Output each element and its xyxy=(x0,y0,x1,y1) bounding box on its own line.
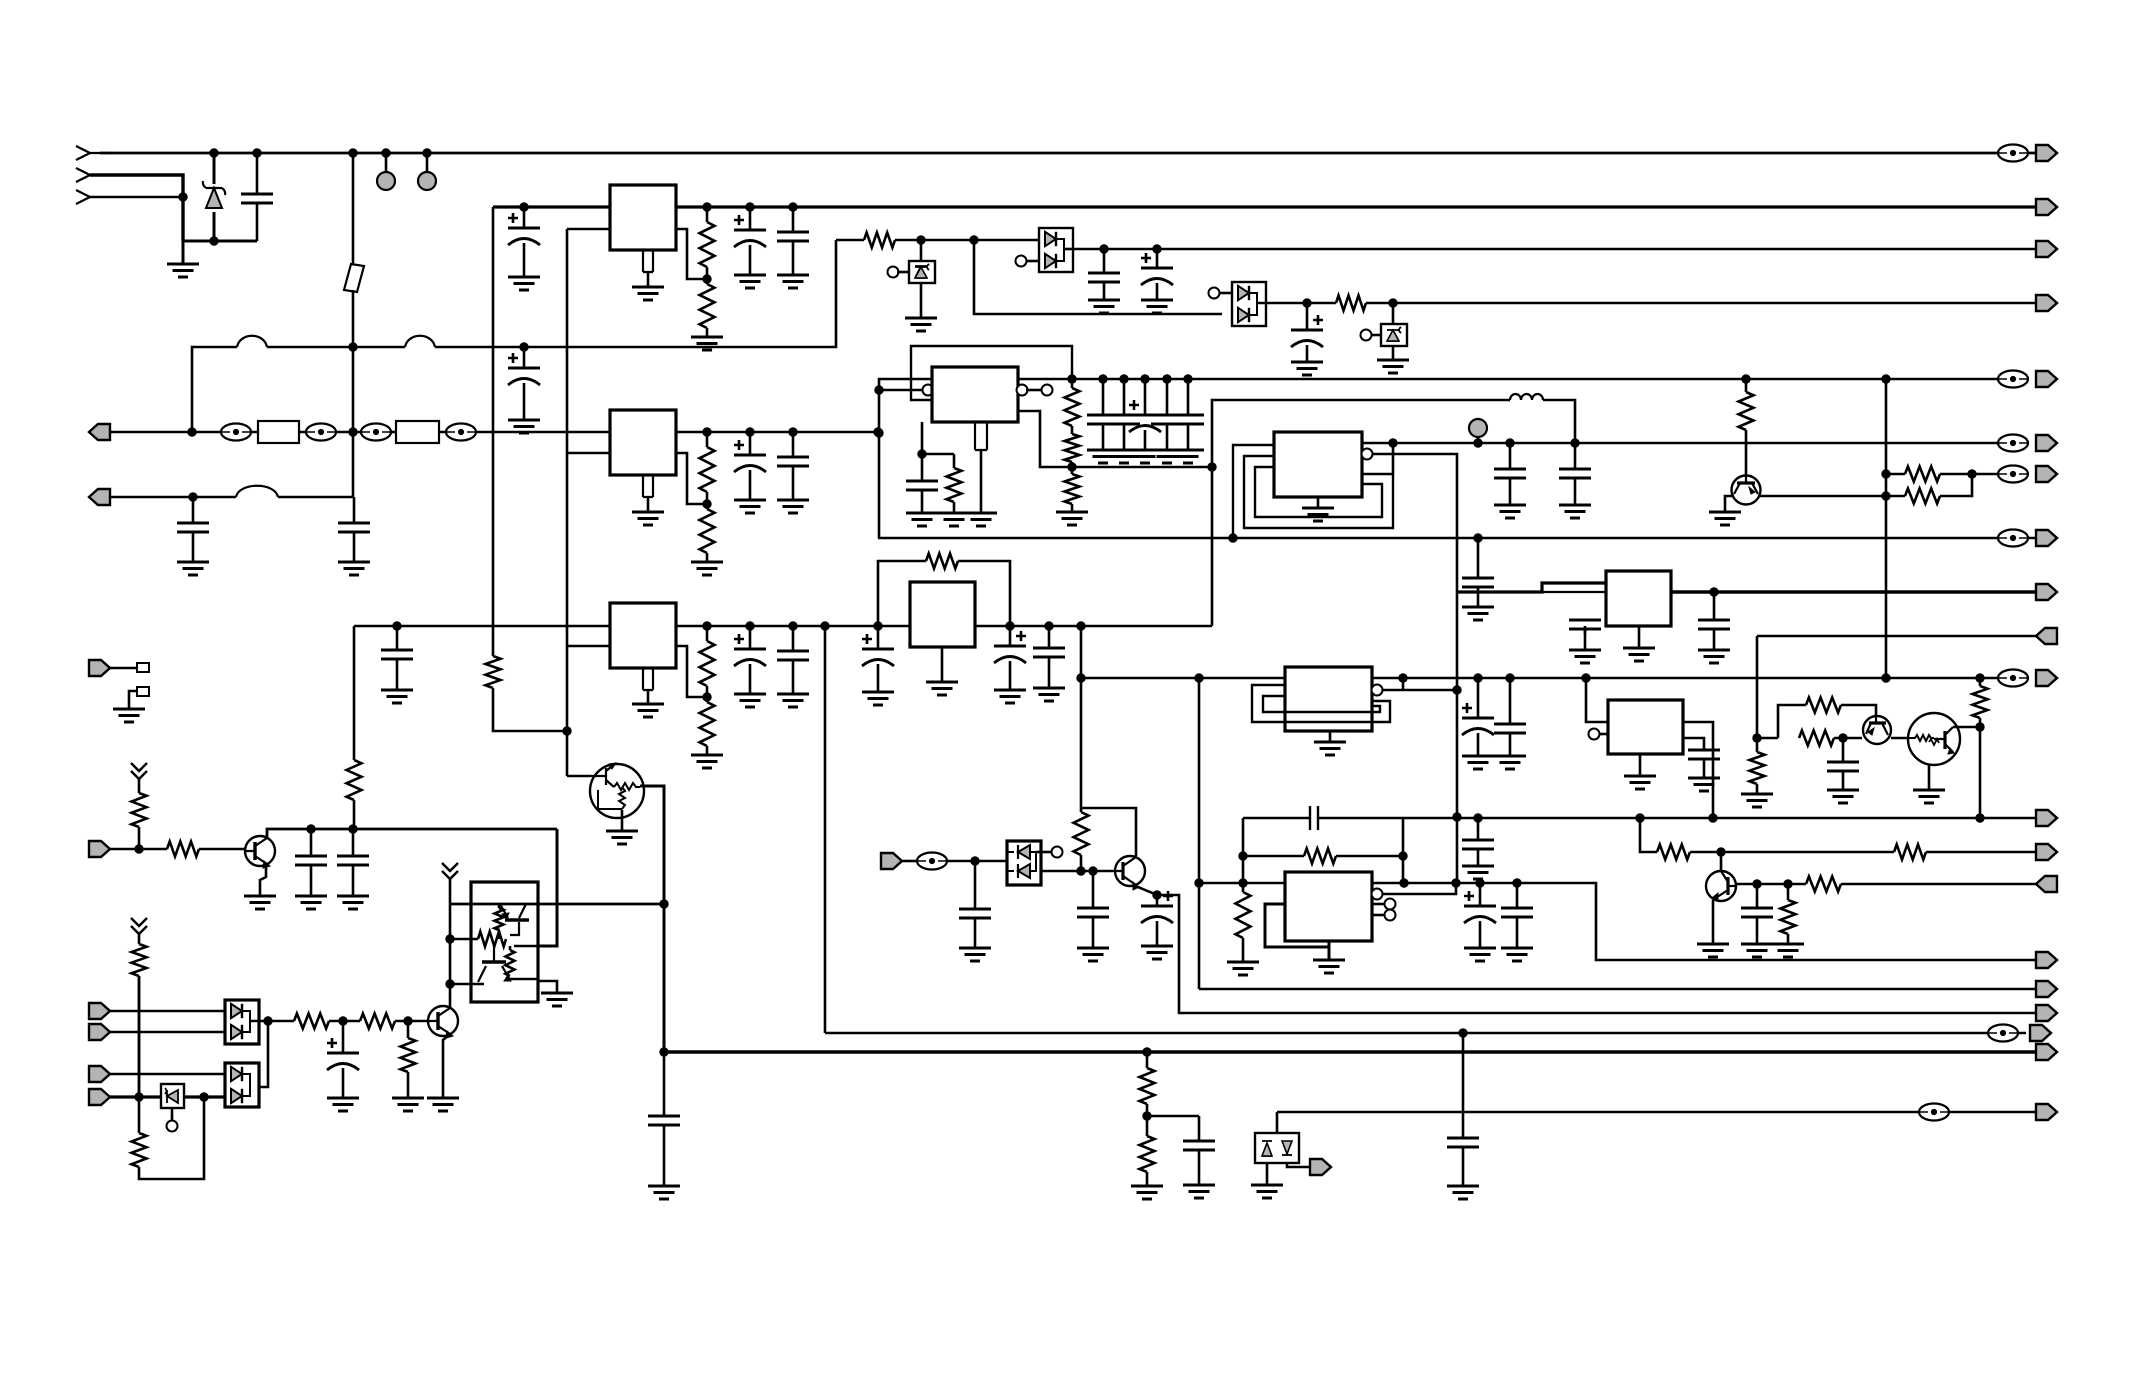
wire pcap C9 gnd lead xyxy=(1156,283,1159,300)
junction net818 x1457 xyxy=(1453,813,1461,821)
wire cap C22 top lead xyxy=(1477,538,1480,578)
wire TP3 stem xyxy=(1477,436,1480,443)
dual diode D6 top xyxy=(1018,845,1030,859)
ground R39 xyxy=(392,1098,424,1111)
wire cap C32 lead xyxy=(1713,592,1716,620)
dual diode D10 box xyxy=(225,1063,259,1107)
junction x664 rail1052 xyxy=(660,1048,668,1056)
wire Q7 emitter gnd xyxy=(260,863,266,896)
dual diode D4 bottom xyxy=(1238,308,1249,322)
junction rc left xyxy=(1239,852,1247,860)
ground C42 xyxy=(1141,946,1173,959)
junction rail626 bridge L xyxy=(874,622,882,630)
junction rail432 corner xyxy=(874,428,882,436)
wire D6 out bottom xyxy=(1041,870,1113,873)
junction pin1 bracket xyxy=(1389,439,1397,447)
wire R7 bottom lead xyxy=(353,800,356,829)
wire net883 right xyxy=(1372,883,2036,960)
wire cap C47 lead xyxy=(1462,1033,1465,1138)
wire Q4 collector xyxy=(1953,726,1980,729)
junction x1886 y474 xyxy=(1882,470,1890,478)
capacitor C33 xyxy=(1827,762,1859,771)
junction oc1 mid xyxy=(446,935,454,943)
junction net829 cap43 xyxy=(307,825,315,833)
junction y1033 cap47 xyxy=(1459,1029,1467,1037)
wire IC4 bottom left pin xyxy=(921,422,924,454)
wire zener D1 leads xyxy=(213,153,216,184)
wire pcap C42 lead xyxy=(1156,895,1159,906)
resistor R10 xyxy=(486,656,501,688)
dual diode D10 top xyxy=(231,1067,242,1081)
transistor Q8 internal xyxy=(500,904,529,935)
wire cap C39 stub xyxy=(1516,883,1519,908)
capacitor C31 xyxy=(1569,620,1601,629)
wire cap C45 lead xyxy=(1198,1116,1201,1141)
wire oc1 out gnd xyxy=(538,981,557,993)
wire IC3 adj link xyxy=(676,646,707,697)
ground C38 xyxy=(1464,948,1496,961)
wire R11 top lead xyxy=(953,454,956,468)
wire vert x1081 xyxy=(1080,626,1083,808)
wire cap C45 gnd lead xyxy=(1198,1149,1201,1185)
wire net852 xyxy=(1690,851,1894,854)
wire net1097 thick xyxy=(110,1095,161,1098)
wire pcap C10 top lead xyxy=(1306,303,1309,330)
wire R11 gnd lead xyxy=(953,502,956,513)
wire pcap C24 gnd lead xyxy=(1009,661,1012,690)
resistor R36 xyxy=(132,944,147,976)
ground C16 xyxy=(906,513,938,526)
ground R22 xyxy=(1741,794,1773,807)
oval rail678 xyxy=(1998,670,2028,687)
wire bridge left xyxy=(878,561,926,626)
resistor R19 xyxy=(1905,467,1940,482)
ground IC7 xyxy=(1314,742,1346,755)
oval rail443 xyxy=(1998,435,2028,452)
junction fuse line cap xyxy=(520,343,528,351)
wire net1097 mid xyxy=(184,1095,225,1098)
wire rail626 left xyxy=(354,625,610,628)
junction rail207 pcap C5 xyxy=(520,203,528,211)
wire capbank1 gnd lead xyxy=(1102,423,1105,450)
wire jumper pin1 xyxy=(110,667,137,670)
capacitor C45 xyxy=(1183,1141,1215,1150)
connector CN2 (left out) xyxy=(89,489,110,505)
wire cap C44 lead xyxy=(663,1052,666,1116)
ground C34 xyxy=(1688,778,1720,791)
resistor R39 xyxy=(401,1038,416,1072)
wire R37 right xyxy=(329,1020,360,1023)
wire TVS3 lead xyxy=(1276,1112,1279,1133)
connector OUT y1167 xyxy=(1310,1159,1331,1175)
junction net678 R16 xyxy=(1976,674,1984,682)
ground TVS3 xyxy=(1251,1185,1283,1198)
junction rail-switch xyxy=(349,149,357,157)
wire net818 rc top2 xyxy=(1318,817,1403,820)
IC4 loop top xyxy=(911,346,1072,400)
ground C45 xyxy=(1183,1185,1215,1198)
ground IC9 xyxy=(1624,776,1656,789)
transistor Q2 xyxy=(1732,476,1761,505)
wire loop up xyxy=(1778,705,1806,738)
wire R27 top lead xyxy=(1242,883,1245,892)
junction rail207 R1 xyxy=(703,203,711,211)
wire Q4 emitter gnd xyxy=(1928,765,1931,790)
wire Q2 out xyxy=(1758,495,1905,498)
bubble D9 xyxy=(167,1121,178,1132)
wire IC10 pin3 stub xyxy=(1372,903,1385,906)
connector OUT y1013 xyxy=(2036,1005,2057,1021)
fuse F3 body xyxy=(258,421,299,443)
wire TVS1 bubble stub xyxy=(897,271,909,274)
junction net829 x353 xyxy=(349,825,357,833)
wire pcap C38 gnd lead xyxy=(1479,921,1482,948)
polarized capacitor C14 xyxy=(734,634,766,666)
wire TVS2 gnd lead xyxy=(1392,346,1395,360)
ground C24 xyxy=(994,690,1026,703)
polarized capacitor C48 xyxy=(327,1038,359,1070)
connector OUT y1112 xyxy=(2036,1104,2057,1120)
connector OUT y592 xyxy=(2036,584,2057,600)
wire cap C47 gnd lead xyxy=(1462,1146,1465,1186)
resistor R5 xyxy=(700,447,715,492)
junction rail1052 div xyxy=(1143,1048,1151,1056)
dcdc module IC6 xyxy=(1274,432,1362,497)
ground capbank5 xyxy=(1172,450,1204,463)
junction row2 cap xyxy=(189,493,197,501)
wire net1112 xyxy=(1277,1111,2036,1114)
resistor R26 xyxy=(1304,849,1336,864)
wire rail1052 xyxy=(664,1050,2036,1053)
resistor R37 xyxy=(294,1014,329,1029)
junction opto2 node1 xyxy=(339,1017,347,1025)
connector OUT y474 xyxy=(2036,466,2057,482)
wire IC9 out xyxy=(1683,722,1713,818)
wire capbank3 gnd lead xyxy=(1144,430,1147,450)
TVS diode D5 glyph xyxy=(1387,340,1399,342)
IC1 tab stub xyxy=(643,250,653,272)
ground R27 xyxy=(1227,962,1259,975)
transistor Q7 xyxy=(245,836,275,868)
capacitor C29 xyxy=(1494,724,1526,733)
test point TP1 xyxy=(377,172,395,190)
wire IC9 gnd stub xyxy=(1639,754,1642,776)
wire rc bottom right xyxy=(1336,855,1403,858)
junction rail432 R5 xyxy=(703,428,711,436)
junction bus cap C32 xyxy=(1710,588,1718,596)
ground IC1 tab xyxy=(632,287,664,300)
wire net1032 xyxy=(110,1031,225,1034)
wire cap C31 lead xyxy=(1584,626,1587,634)
TVS box D7 xyxy=(1255,1133,1299,1163)
wire rail303 seg xyxy=(1307,302,1336,305)
ground Q10 xyxy=(427,1098,459,1111)
wire input3 xyxy=(90,196,183,199)
capacitor C13 xyxy=(381,650,413,659)
connector CN3 small xyxy=(89,660,110,676)
wire D4 output xyxy=(1257,302,1307,305)
ground C27 xyxy=(1559,505,1591,518)
ground IC5 xyxy=(926,682,958,695)
junction net818 cap36 xyxy=(1474,814,1482,822)
wire riser xyxy=(259,1021,268,1087)
junction R8/R9 node xyxy=(703,693,711,701)
junction oc1 low xyxy=(446,980,454,988)
junction rail379 capbank4 xyxy=(1163,375,1171,383)
bubble TVS2 left xyxy=(1361,330,1372,341)
junction x1457 y690 xyxy=(1453,686,1461,694)
polarized capacitor C38 xyxy=(1464,891,1496,923)
junction net538 L1 xyxy=(1229,534,1237,542)
connector IN y1097 xyxy=(89,1089,110,1105)
wire rail379 left corner xyxy=(879,379,932,538)
wire row2 right xyxy=(278,496,354,499)
resistor R24 xyxy=(1781,900,1796,934)
wire D3 bubble stub xyxy=(1026,260,1039,263)
junction zener bottom xyxy=(210,237,218,245)
wire ground stem AC node xyxy=(182,241,185,264)
wire capbank1 top lead xyxy=(1102,379,1105,415)
wire IC2 adj link xyxy=(676,453,707,504)
wire IC8 input2 xyxy=(1542,591,1606,593)
dual diode D8 top xyxy=(231,1004,242,1018)
wire IC8 out bus xyxy=(1671,590,2036,593)
wire R12-R13 link xyxy=(1071,426,1074,434)
wire oc1 vert xyxy=(449,904,452,1007)
wire fuse line right xyxy=(435,240,836,347)
wire IC8 gnd stub xyxy=(1638,626,1641,648)
wire bridge right xyxy=(958,561,1010,626)
junction x879 bubble line xyxy=(875,386,883,394)
wire rail VIN y=153 xyxy=(100,152,2036,155)
regulator IC9 xyxy=(1608,700,1683,754)
wire R28 link xyxy=(1080,808,1083,812)
wire R12 top lead xyxy=(1071,379,1074,388)
TVS diode D2 glyph xyxy=(915,266,927,278)
transistor Q4 xyxy=(1908,713,1960,765)
thermal switch SW1 xyxy=(344,264,364,292)
polarized capacitor C23 xyxy=(862,634,894,666)
capacitor C27 xyxy=(1559,469,1591,478)
wire net1116 xyxy=(1147,1115,1199,1118)
resistor R8 xyxy=(700,641,715,686)
ground C32 xyxy=(1698,650,1730,663)
capacitor C16 xyxy=(906,481,938,490)
ground C29 xyxy=(1494,756,1526,769)
inductor L1 xyxy=(1510,394,1543,400)
input arrow J1 pin1 xyxy=(76,146,110,160)
wire R18 up link xyxy=(1940,474,1972,496)
wire IC6 pin1 out xyxy=(1362,442,2013,445)
controller IC4 xyxy=(932,367,1018,422)
ground capbank3 xyxy=(1129,450,1161,463)
wire D8 out xyxy=(250,1020,294,1023)
IC6 loop2 xyxy=(1244,456,1393,528)
capacitor bank C110 xyxy=(1151,415,1183,424)
wire opto in2 xyxy=(947,860,1007,863)
capacitor C43 xyxy=(295,856,327,865)
wire R3 right lead xyxy=(895,239,974,242)
wire cap C3 bottom lead xyxy=(192,531,195,562)
wire R27 gnd lead xyxy=(1242,938,1245,962)
fuse F5 xyxy=(236,486,278,497)
chevron ref C xyxy=(131,918,147,934)
wire D9 gnd stub xyxy=(171,1108,174,1121)
bubble TVS1 left xyxy=(888,267,899,278)
junction rail2 x353 xyxy=(349,428,357,436)
transistor Q6 xyxy=(1113,856,1145,890)
ground C39 xyxy=(1501,948,1533,961)
wire net538 xyxy=(878,537,2036,540)
junction net883 x1404 xyxy=(1400,879,1408,887)
wire cap C49 gnd lead xyxy=(352,864,355,896)
polarized capacitor C5 xyxy=(508,213,540,245)
resistor R13 xyxy=(1065,434,1080,462)
ground C7 xyxy=(777,275,809,288)
wire R28 bottom xyxy=(1080,855,1083,871)
TVS box D9 xyxy=(161,1084,184,1108)
wire fuse line left xyxy=(192,347,237,432)
wire pcap C2 bottom lead xyxy=(523,383,526,420)
junction rail379 capbank2 xyxy=(1120,375,1128,383)
wire cap C44 gnd lead xyxy=(663,1124,666,1186)
dual diode D6 bottom xyxy=(1018,864,1030,878)
fuse F4 body xyxy=(396,421,439,443)
transistor Q5 xyxy=(1706,871,1736,901)
junction R16 collector xyxy=(1976,723,1984,731)
wire net852 right xyxy=(1926,851,2036,854)
wire vert x1757 xyxy=(1756,636,1759,752)
regulator IC2 xyxy=(610,410,676,475)
wire R36 bottom xyxy=(138,976,141,1097)
polarized capacitor C28 xyxy=(1462,703,1494,735)
wire R16 top lead xyxy=(1979,678,1982,686)
wire IC10 pin4 stub xyxy=(1372,914,1385,917)
wire capbank4 gnd lead xyxy=(1166,423,1169,450)
bubble IC10 pin3 xyxy=(1385,899,1396,910)
capacitor C47 xyxy=(1447,1138,1479,1147)
connector OUT y153 xyxy=(2036,145,2057,161)
junction rail626 R8 xyxy=(703,622,711,630)
wire IC10 gnd stub xyxy=(1328,941,1331,960)
wire IC7 bracket v xyxy=(1402,678,1405,690)
ground IC6 xyxy=(1302,508,1334,521)
ground C40 xyxy=(959,948,991,961)
wire loop1738 xyxy=(1757,737,1778,740)
wire IC6 gnd stub xyxy=(1317,497,1320,508)
IC4 tab stub xyxy=(975,422,987,450)
junction rail379 x1886 xyxy=(1882,375,1890,383)
wire Q10 collector xyxy=(449,1007,452,1008)
wire bracket v xyxy=(1392,443,1395,474)
resistor R32 internal xyxy=(495,908,504,930)
wire R8 bottom lead xyxy=(706,686,709,702)
resistor R28 xyxy=(1074,812,1089,855)
wire Q7 collector xyxy=(267,829,557,838)
wire cap C1 top lead xyxy=(256,153,259,194)
ground C8 xyxy=(1088,300,1120,313)
junction net883 x1456 xyxy=(1452,879,1460,887)
IC7 loop2 xyxy=(1263,696,1380,712)
dual diode D8 box xyxy=(225,1000,259,1044)
junction x1980 net818 xyxy=(1976,814,1984,822)
wire opto in xyxy=(902,860,917,863)
wire R38 right xyxy=(395,1020,429,1023)
junction diode feed xyxy=(970,236,978,244)
wire capbank3 top lead xyxy=(1144,379,1147,415)
wire cap C13 gnd lead xyxy=(396,658,399,690)
wire cap C33 gnd lead xyxy=(1842,770,1845,790)
junction rail432 pcap C11 xyxy=(746,428,754,436)
ground capbank4 xyxy=(1151,450,1183,463)
connector OUT y207 xyxy=(2036,199,2057,215)
wire cap C3 top lead xyxy=(192,497,195,523)
connector OUT y538 xyxy=(2036,530,2057,546)
resistor R21 xyxy=(1799,731,1834,746)
junction IC7 bracket xyxy=(1399,674,1407,682)
ferrite bead FB6 xyxy=(1919,1104,1949,1121)
ground R14 xyxy=(1056,512,1088,525)
junction rail626 cap C15 xyxy=(789,622,797,630)
ground C48 xyxy=(327,1098,359,1111)
wire loop top xyxy=(1212,400,1510,626)
TVS D7 glyphs xyxy=(1262,1141,1272,1156)
wire net474 right xyxy=(1940,473,2013,476)
IC10 loop xyxy=(1265,904,1329,947)
optocoupler OC1 xyxy=(471,882,538,1002)
wire net884 xyxy=(1736,883,1806,886)
wire R39 gnd lead xyxy=(407,1072,410,1098)
wire chevB stem xyxy=(449,879,452,904)
wire pcap C14 top lead xyxy=(749,626,752,649)
wire net474 xyxy=(1886,473,1905,476)
resistor R29 xyxy=(132,793,147,827)
wire TVS1 top lead xyxy=(920,240,923,261)
ground capbank1 xyxy=(1087,450,1119,463)
connector OUT y678 xyxy=(2036,670,2057,686)
wire Q6 emitter xyxy=(1138,887,2036,1013)
wire chevA stem xyxy=(138,779,141,793)
transistor Q3 xyxy=(1863,716,1891,744)
junction Q6 pcap xyxy=(1153,891,1161,899)
jumper pad 1 xyxy=(137,663,149,672)
junction rail432 cap C12 xyxy=(789,428,797,436)
wire cap C25 top lead xyxy=(1048,626,1051,648)
junction rail626 x1081 xyxy=(1077,622,1085,630)
dual diode D4 top xyxy=(1238,286,1249,300)
transistor Q10 xyxy=(428,1006,458,1038)
ground C6 xyxy=(734,275,766,288)
wire rail303 right xyxy=(1366,302,2036,305)
wire cap C8 top lead xyxy=(1103,249,1106,273)
resistor R22 xyxy=(1750,752,1765,784)
wire pcap C5 bottom lead xyxy=(523,243,526,277)
ferrite bead FB4 xyxy=(446,424,476,441)
ground C15 xyxy=(777,694,809,707)
bubble IC4 pin2 xyxy=(923,385,934,396)
TVS D9 glyph xyxy=(167,1090,178,1103)
junction net884 cap xyxy=(1753,880,1761,888)
junction rail303 tvs xyxy=(1389,299,1397,307)
wire cap C13 top lead xyxy=(396,626,399,650)
wire IC1 tab gnd lead xyxy=(647,272,650,287)
oval rail153 xyxy=(1998,145,2028,162)
dual diode D10 internal xyxy=(242,1074,250,1096)
dual diode D8 bottom xyxy=(231,1025,242,1039)
wire jumper pin2 to gnd xyxy=(129,691,137,709)
wire cap C36 gnd lead xyxy=(1477,848,1480,866)
transistor Q1 xyxy=(590,763,644,818)
